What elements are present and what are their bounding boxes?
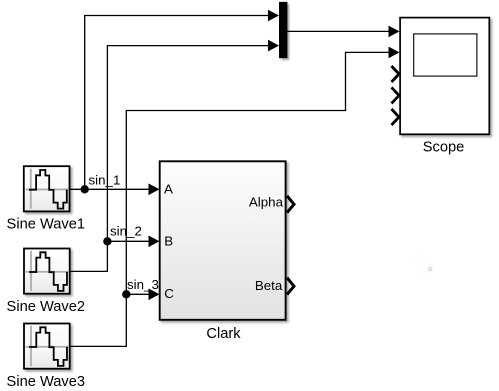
svg-text:A: A (164, 181, 173, 196)
svg-text:C: C (164, 286, 174, 301)
svg-text:Sine Wave2: Sine Wave2 (7, 299, 85, 315)
svg-text:Alpha: Alpha (249, 195, 284, 210)
svg-text:Sine Wave1: Sine Wave1 (7, 216, 85, 232)
svg-text:Clark: Clark (206, 326, 241, 342)
svg-text:sin_3: sin_3 (127, 277, 159, 292)
svg-text:Beta: Beta (255, 278, 283, 293)
svg-text:Scope: Scope (423, 140, 465, 156)
svg-text:Sine Wave3: Sine Wave3 (7, 374, 85, 390)
svg-text:sin_1: sin_1 (89, 173, 121, 188)
svg-text:B: B (164, 234, 173, 249)
svg-text:sin_2: sin_2 (110, 224, 142, 239)
